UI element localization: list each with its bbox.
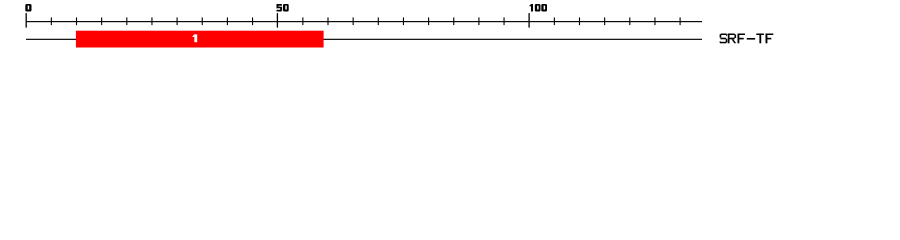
ruler minor ticks [51, 17, 681, 25]
ruler label 0 [25, 4, 31, 12]
letter S [720, 34, 728, 44]
dash of SRF-TF [747, 38, 755, 40]
match box label 1 (white) [192, 34, 197, 42]
letter F2 [766, 34, 774, 44]
digit 0 [541, 4, 547, 12]
letter T [756, 34, 764, 44]
ruler major tick 0 [26, 13, 27, 28]
digit 0 [535, 4, 541, 12]
digit 0 [283, 4, 289, 12]
ruler major tick 100 [528, 13, 529, 28]
ruler axis line [26, 21, 702, 22]
ruler major tick 50 [277, 13, 278, 28]
letter F [738, 34, 746, 44]
digit 1 [531, 4, 533, 12]
match box 1 (red) [76, 31, 324, 48]
ruler label 50 [277, 4, 289, 12]
ruler label 100 [529, 4, 547, 12]
letter R [728, 34, 736, 44]
sequence line [26, 39, 702, 40]
digit 5 [277, 4, 282, 6]
background [0, 0, 900, 58]
